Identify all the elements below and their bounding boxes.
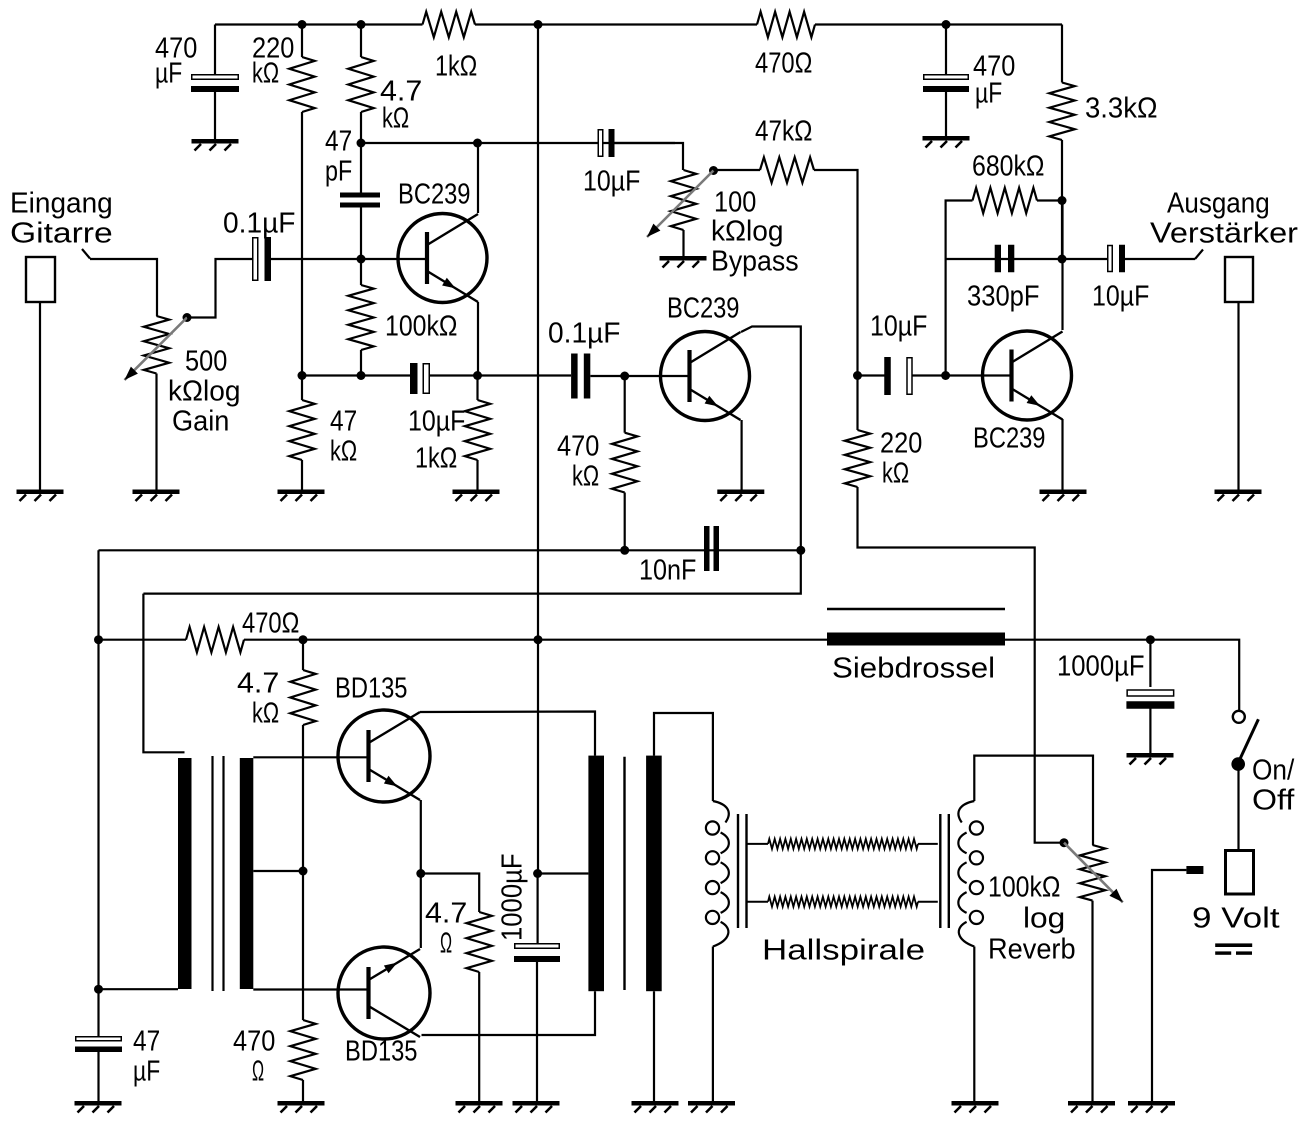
wire center tap continue down xyxy=(302,871,304,1020)
capacitor 470uF supply stage3 xyxy=(923,75,969,92)
wire gain wiper to 0.1uF xyxy=(187,259,252,318)
node 10nF right / collector xyxy=(796,546,805,555)
node collector Q1 top xyxy=(473,139,482,148)
wire 1000uF2 to ground xyxy=(1149,708,1151,753)
node base Q3 xyxy=(941,371,950,380)
wire rail corner to 3.3k xyxy=(1061,25,1063,83)
node bypass wiper xyxy=(709,166,718,175)
node bus-x538 xyxy=(534,635,543,644)
wire 10nF bus y550 xyxy=(99,549,801,551)
transformer T1 secondary bar xyxy=(240,758,254,989)
resistor 1k (collector load Q1) on rail xyxy=(423,12,476,37)
wire output hook xyxy=(1195,250,1203,260)
svg-text:470: 470 xyxy=(557,430,599,462)
capacitor 1000uF supply xyxy=(1126,690,1174,709)
svg-text:100kΩ: 100kΩ xyxy=(385,310,458,342)
svg-text:µF: µF xyxy=(133,1055,160,1087)
svg-text:470: 470 xyxy=(233,1025,275,1057)
wire bus to 47k xyxy=(301,376,303,401)
wire collector Q5 to T2 bottom xyxy=(422,991,596,1035)
wire 10uF to bypass pot xyxy=(614,143,683,170)
svg-text:4.7: 4.7 xyxy=(425,897,467,929)
svg-text:kΩ: kΩ xyxy=(882,457,909,489)
spring core left line a xyxy=(737,814,739,928)
wire supply bus left xyxy=(99,639,187,641)
wire 47uF to ground xyxy=(97,1051,99,1101)
wire main vertical x538 xyxy=(537,25,539,874)
svg-text:470Ω: 470Ω xyxy=(755,47,812,79)
ground under 470uF-1 xyxy=(192,139,239,151)
svg-text:330pF: 330pF xyxy=(967,280,1040,312)
battery 9V box xyxy=(1226,851,1254,895)
ground drive coil xyxy=(688,1101,735,1113)
switch lever xyxy=(1238,719,1259,764)
svg-text:µF: µF xyxy=(155,57,182,89)
wire T1 primary bottom to x98 xyxy=(99,988,179,990)
capacitor 10nF xyxy=(704,526,719,571)
wire bus cap to emitter node xyxy=(430,374,571,376)
wire bypass pot to ground xyxy=(682,230,684,256)
wire T1 secondary top to base D1 xyxy=(253,756,368,758)
svg-text:Ω: Ω xyxy=(252,1055,264,1087)
spring lower xyxy=(747,901,769,903)
wire 0.1uF to base Q1 xyxy=(271,258,427,260)
reverb drive coil xyxy=(706,801,729,947)
wire base Q1 to 100k xyxy=(360,259,362,285)
transformer T2 secondary bar xyxy=(646,756,662,992)
capacitor 330pF xyxy=(995,245,1015,273)
ground 470uF2 xyxy=(923,136,970,148)
ground battery minus xyxy=(1128,1101,1175,1113)
wire rail to 4.7k xyxy=(360,25,362,58)
wire bias bus y375 left xyxy=(302,374,410,376)
node base Q1 / 100k xyxy=(357,255,366,264)
svg-text:kΩlog: kΩlog xyxy=(711,215,784,247)
wire T1 secondary tap xyxy=(253,870,303,872)
resistor 47k vertical xyxy=(289,400,314,460)
potentiometer 500k Gain zigzag xyxy=(144,316,169,374)
wire supply node to T2 tap xyxy=(538,872,589,874)
node 680k-3.3k xyxy=(1058,196,1067,205)
transformer T2 core line xyxy=(623,757,625,990)
svg-text:kΩ: kΩ xyxy=(252,57,279,89)
wire collector Q2 xyxy=(741,327,801,551)
capacitor 0.1uF input xyxy=(253,237,271,281)
wire C470uF-1 to ground xyxy=(214,92,216,139)
wire T2 secondary bottom to ground xyxy=(653,991,655,1101)
wire collector Q3 up xyxy=(1061,201,1063,331)
resistor 470R bias vertical xyxy=(290,1020,315,1080)
resistor 47k bypass horizontal xyxy=(760,157,814,182)
ground 1000uF1 xyxy=(513,1101,560,1113)
wire emitter Q1 down xyxy=(477,302,479,376)
capacitor 10uF stage3 input xyxy=(884,357,912,395)
resistor 4.7k driver vertical xyxy=(290,670,315,725)
wire 220k bottom to reverb wiper xyxy=(858,487,1065,843)
node rail-220k xyxy=(298,20,307,29)
wire 1000uF1 to ground xyxy=(536,962,538,1101)
wire 220k top xyxy=(856,376,858,431)
wire rail to 220k xyxy=(301,25,303,58)
jack output box xyxy=(1225,257,1253,302)
svg-text:BC239: BC239 xyxy=(398,178,471,210)
svg-text:1000µF: 1000µF xyxy=(1057,650,1145,682)
svg-text:9 Volt: 9 Volt xyxy=(1192,902,1280,934)
node bias divider top xyxy=(299,635,308,644)
spring core right line a xyxy=(939,814,941,928)
wire emitter Q4 down xyxy=(420,800,422,874)
wire 47k to ground xyxy=(301,460,303,490)
spring upper xyxy=(747,843,769,845)
transformer T2 primary bar xyxy=(588,756,604,992)
svg-text:On/: On/ xyxy=(1252,754,1295,786)
ground 470R bias xyxy=(278,1101,325,1113)
svg-text:0.1µF: 0.1µF xyxy=(223,207,296,239)
wire emitter to 1k xyxy=(476,376,478,401)
wire input jack to ground xyxy=(39,302,41,490)
reverb wiper arrow xyxy=(1064,843,1123,903)
svg-text:Reverb: Reverb xyxy=(988,933,1076,965)
wire input to gain pot xyxy=(90,259,157,316)
wire 10nF bus left down x98 xyxy=(97,550,99,1037)
wire supply bus right xyxy=(1005,640,1239,712)
capacitor 47uF xyxy=(75,1037,122,1052)
svg-text:Ω: Ω xyxy=(440,927,452,959)
transformer T1 core line a xyxy=(211,756,213,991)
node base Q2 / 470k xyxy=(620,372,629,381)
ground reverb pot xyxy=(1068,1101,1115,1113)
svg-text:pF: pF xyxy=(325,155,352,187)
svg-text:47: 47 xyxy=(133,1025,160,1057)
wire 330pF line xyxy=(946,258,1107,260)
svg-text:BC239: BC239 xyxy=(667,292,740,324)
svg-text:1kΩ: 1kΩ xyxy=(415,442,457,474)
choke Siebdrossel core line xyxy=(827,608,1005,610)
svg-text:10µF: 10µF xyxy=(583,165,640,197)
svg-text:10µF: 10µF xyxy=(408,405,465,437)
svg-text:470Ω: 470Ω xyxy=(242,607,299,639)
svg-text:47kΩ: 47kΩ xyxy=(755,115,812,147)
svg-text:kΩ: kΩ xyxy=(572,460,599,492)
wire drive coil to ground xyxy=(712,947,714,1102)
resistor 680k horizontal xyxy=(973,188,1038,213)
wire reverb pot to ground xyxy=(1091,901,1093,1101)
transformer T1 primary bar xyxy=(178,758,192,989)
node bus-x98 xyxy=(94,635,103,644)
node rail-470uF2 xyxy=(942,20,951,29)
svg-text:220: 220 xyxy=(880,427,922,459)
node bus-100k xyxy=(357,371,366,380)
svg-text:100: 100 xyxy=(714,186,756,218)
ground T2 secondary xyxy=(632,1101,679,1113)
ground bypass pot xyxy=(660,256,707,268)
svg-text:1000µF: 1000µF xyxy=(497,853,529,941)
capacitor 10uF emitter bus xyxy=(410,363,429,394)
capacitor 10uF output xyxy=(1108,245,1125,273)
wire emitter Q3 to ground xyxy=(1061,419,1063,490)
ground 47k xyxy=(278,490,325,502)
wire 47pF to base Q1 xyxy=(360,208,362,260)
wire output jack to ground xyxy=(1237,302,1239,490)
wire 100k to bus xyxy=(360,350,362,376)
wire collector Q4 to T2 top xyxy=(420,712,595,756)
resistor 1k emitter vertical xyxy=(465,400,490,460)
wire 1k to ground xyxy=(476,460,478,490)
wire collector Q1 up xyxy=(477,143,479,213)
svg-text:Siebdrossel: Siebdrossel xyxy=(832,652,995,684)
svg-text:0.1µF: 0.1µF xyxy=(548,317,621,349)
wire 3.3k to collector node xyxy=(1061,140,1063,259)
wire 470uF2 from rail xyxy=(945,25,947,75)
ground 1000uF2 xyxy=(1127,753,1174,765)
node x98-primary bottom xyxy=(94,985,103,994)
svg-text:10nF: 10nF xyxy=(639,554,696,586)
node rail-4.7k xyxy=(357,20,366,29)
wire +9V top rail segment 3 xyxy=(815,23,1062,25)
node supply-1000uF1 xyxy=(533,869,542,878)
wire 470R to bias node xyxy=(244,639,303,641)
svg-text:680kΩ: 680kΩ xyxy=(972,150,1045,182)
svg-text:Verstärker: Verstärker xyxy=(1150,217,1298,249)
svg-text:3.3kΩ: 3.3kΩ xyxy=(1085,92,1158,124)
node rail-mainvert xyxy=(534,20,543,29)
capacitor 47pF xyxy=(340,193,380,208)
battery minus snap xyxy=(1186,866,1203,874)
wire 680k right to collector line xyxy=(1037,199,1062,201)
potentiometer 100k Reverb zigzag xyxy=(1080,845,1105,901)
svg-text:10µF: 10µF xyxy=(1092,280,1149,312)
svg-text:47: 47 xyxy=(330,405,357,437)
svg-text:10µF: 10µF xyxy=(870,310,927,342)
svg-text:4.7: 4.7 xyxy=(237,667,279,699)
ground pickup coil xyxy=(952,1101,999,1113)
svg-text:log: log xyxy=(1023,902,1065,934)
wire bias node to 4.7k xyxy=(302,640,304,670)
ground output jack xyxy=(1215,490,1262,502)
wire 10uF3 to base Q3 xyxy=(912,374,1012,376)
wire 470R to ground xyxy=(302,1080,304,1101)
wire bypass wiper to 47k xyxy=(714,169,761,171)
svg-text:kΩ: kΩ xyxy=(382,102,409,134)
transistor Q5 BD135 xyxy=(338,947,430,1039)
wire +9V top rail segment 2 xyxy=(475,23,757,25)
wire 220k to bias bus xyxy=(301,112,303,376)
resistor 470k vertical xyxy=(612,433,637,493)
wire T2 secondary top to drive coil xyxy=(654,713,713,801)
wire input hook xyxy=(82,249,90,259)
wire base Q3 up to 330pF/680k xyxy=(946,201,973,376)
node 47pF-collector line left xyxy=(357,139,366,148)
capacitor 0.1uF stage2 xyxy=(571,354,590,399)
ground gain pot xyxy=(133,490,180,502)
svg-text:1kΩ: 1kΩ xyxy=(435,50,477,82)
choke Siebdrossel winding xyxy=(827,633,1005,646)
node bus-1000uF2 xyxy=(1146,635,1155,644)
svg-text:Off: Off xyxy=(1252,784,1295,816)
wire 0.1uF2 to base Q2 xyxy=(590,375,689,377)
wire collector line y141 xyxy=(361,142,675,144)
reverb pickup coil xyxy=(958,801,983,947)
resistor 100k vertical xyxy=(348,285,373,350)
resistor 4.7k stage1 vertical xyxy=(348,57,373,112)
node gain wiper xyxy=(183,313,192,322)
wire 470uF2 to ground xyxy=(945,92,947,136)
wire emitter Q2 to ground xyxy=(740,420,742,490)
wire 4.7R to ground xyxy=(478,972,480,1101)
svg-text:kΩ: kΩ xyxy=(252,697,279,729)
svg-text:BC239: BC239 xyxy=(973,422,1046,454)
spring core right line b xyxy=(948,814,950,928)
transistor Q4 BD135 xyxy=(338,710,430,802)
wire collector node down to y594 xyxy=(143,550,800,593)
wire pickup coil top to pot xyxy=(974,756,1093,845)
capacitor 470uF (input stage decoupling) xyxy=(191,75,239,92)
jack input box xyxy=(26,257,55,302)
ground input jack xyxy=(17,490,64,502)
wire supply bus mid xyxy=(303,639,827,641)
svg-text:Gain: Gain xyxy=(172,405,229,437)
wire y594 to transformer primary top xyxy=(143,594,184,753)
wire base Q2 to 470k xyxy=(624,376,626,433)
ground 4.7R xyxy=(456,1101,503,1113)
ground emitter Q2 xyxy=(717,490,764,502)
svg-text:Ausgang: Ausgang xyxy=(1167,187,1270,219)
node 10uF3-220k xyxy=(853,371,862,380)
transistor Q1 BC239 xyxy=(398,214,487,303)
node reverb wiper xyxy=(1060,838,1069,847)
svg-text:kΩ: kΩ xyxy=(330,435,357,467)
wire 4.7k to 47pF node xyxy=(360,112,362,193)
ground 47uF xyxy=(75,1101,122,1113)
capacitor 1000uF amp xyxy=(514,944,560,962)
svg-text:500: 500 xyxy=(185,345,227,377)
ground emitter Q3 xyxy=(1040,490,1087,502)
wire emitter Q5 up xyxy=(420,874,422,949)
gain pot wiper arrow xyxy=(125,318,188,381)
wire output cap to jack hook xyxy=(1125,258,1196,260)
wire switch to battery xyxy=(1237,764,1239,851)
node 470k-10nF bus xyxy=(620,546,629,555)
wire 470k to 10nF bus xyxy=(624,493,626,551)
node collector Q3 / 330pF xyxy=(1058,255,1067,264)
svg-text:Gitarre: Gitarre xyxy=(10,217,113,249)
node emitter Q1 / 1k xyxy=(473,371,482,380)
node center tap xyxy=(299,867,308,876)
battery DC symbol xyxy=(1215,943,1252,954)
svg-text:BD135: BD135 xyxy=(345,1035,418,1067)
svg-text:BD135: BD135 xyxy=(335,672,408,704)
resistor 470R (decoupling) on rail xyxy=(757,12,815,37)
svg-text:kΩlog: kΩlog xyxy=(168,375,241,407)
svg-text:Bypass: Bypass xyxy=(711,245,799,277)
capacitor 10uF interstage xyxy=(598,129,614,157)
wire emitter node to 4.7R xyxy=(421,874,479,913)
transistor Q3 BC239 xyxy=(983,331,1072,420)
spring core left line b xyxy=(745,814,747,928)
node bus-47k xyxy=(298,371,307,380)
resistor 470R supply horizontal xyxy=(186,627,244,652)
wire 4.7k to center tap xyxy=(302,725,304,871)
svg-text:100kΩ: 100kΩ xyxy=(988,871,1061,903)
node emitter join xyxy=(416,869,425,878)
wire gain pot to ground xyxy=(155,374,157,490)
wire 47k to stage3 input xyxy=(814,170,858,376)
resistor 220k stage3 vertical xyxy=(845,430,870,487)
svg-text:47: 47 xyxy=(325,125,352,157)
switch On/Off contact circle xyxy=(1233,711,1245,723)
transistor Q2 BC239 xyxy=(661,332,750,421)
wire 10uF3 left lead xyxy=(858,374,886,376)
resistor 3.3k vertical xyxy=(1049,83,1074,141)
wire 1000uF2 from bus xyxy=(1149,640,1151,687)
potentiometer 100k Bypass zigzag xyxy=(671,170,696,230)
switch pole dot xyxy=(1231,757,1245,771)
ground 1k xyxy=(453,490,500,502)
svg-text:µF: µF xyxy=(975,77,1002,109)
wire +9V top rail segment 1 xyxy=(215,23,423,25)
resistor 4.7R vertical xyxy=(467,912,492,972)
wire T1 secondary bottom to base D2 xyxy=(253,988,368,990)
wire supply node down to 1000uF1 xyxy=(536,874,538,944)
bypass wiper arrow xyxy=(647,171,714,238)
wire pickup coil to ground xyxy=(973,947,975,1102)
transformer T1 core line b xyxy=(222,756,224,991)
resistor 220k vertical xyxy=(289,57,314,112)
svg-text:Eingang: Eingang xyxy=(10,187,113,219)
wire rail to C 470uF-1 xyxy=(214,25,216,75)
svg-text:Hallspirale: Hallspirale xyxy=(762,934,925,966)
wire battery minus to ground xyxy=(1152,870,1186,1101)
